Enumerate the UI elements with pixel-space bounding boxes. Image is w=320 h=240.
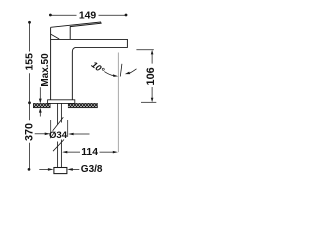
- svg-text:106: 106: [145, 67, 157, 85]
- svg-text:155: 155: [25, 53, 36, 71]
- supply pipe upper segment: [58, 104, 62, 125]
- aerator 10-degree tilted line: [120, 64, 122, 77]
- G3/8 connector nut: [54, 168, 67, 174]
- handle lever: [51, 22, 102, 39]
- dimension 106: bottom extension line: [141, 101, 156, 103]
- dimension 106: top extension line: [136, 49, 153, 51]
- dimension Ø34: extension lines: [50, 120, 52, 138]
- dimension Ø34: right arrow: [73, 133, 89, 135]
- dot at lever-top level: [28, 21, 31, 24]
- dimension 106: vertical line with arrows: [151, 54, 153, 64]
- supply pipe lower segment: [58, 140, 62, 168]
- Max.50 dimension arrows: [39, 87, 41, 102]
- 370 bottom arrow to nut: [39, 168, 48, 170]
- svg-text:Ø34: Ø34: [49, 130, 68, 141]
- 10-degree arc, left part with arrow: [104, 72, 114, 76]
- countertop hatched section (left): [33, 103, 50, 107]
- dimension 155/370 shared vertical line: [29, 22, 31, 51]
- water stream reference line (gray): [117, 53, 119, 153]
- pipe break mark upper: [53, 117, 64, 130]
- svg-text:Max.50: Max.50: [40, 53, 51, 87]
- countertop hatched section (right): [68, 103, 97, 107]
- svg-text:G3/8: G3/8: [81, 164, 103, 175]
- G3/8 leader arrow: [72, 168, 80, 170]
- dot at deck level: [28, 101, 31, 104]
- pipe break mark lower: [53, 140, 64, 152]
- base plate: [48, 100, 75, 104]
- handle underside detail line: [51, 34, 59, 39]
- svg-text:149: 149: [79, 11, 97, 22]
- svg-text:114: 114: [81, 147, 98, 158]
- dimension Ø34: left arrow: [35, 133, 46, 135]
- 10-degree arc, right part with arrow: [129, 69, 137, 74]
- dimension 149 line: [50, 14, 76, 16]
- faucet body outline (column + spout bar): [51, 27, 128, 99]
- svg-text:370: 370: [24, 123, 36, 141]
- dimension 114 line: [64, 151, 81, 153]
- dot at hose-end level: [28, 168, 31, 171]
